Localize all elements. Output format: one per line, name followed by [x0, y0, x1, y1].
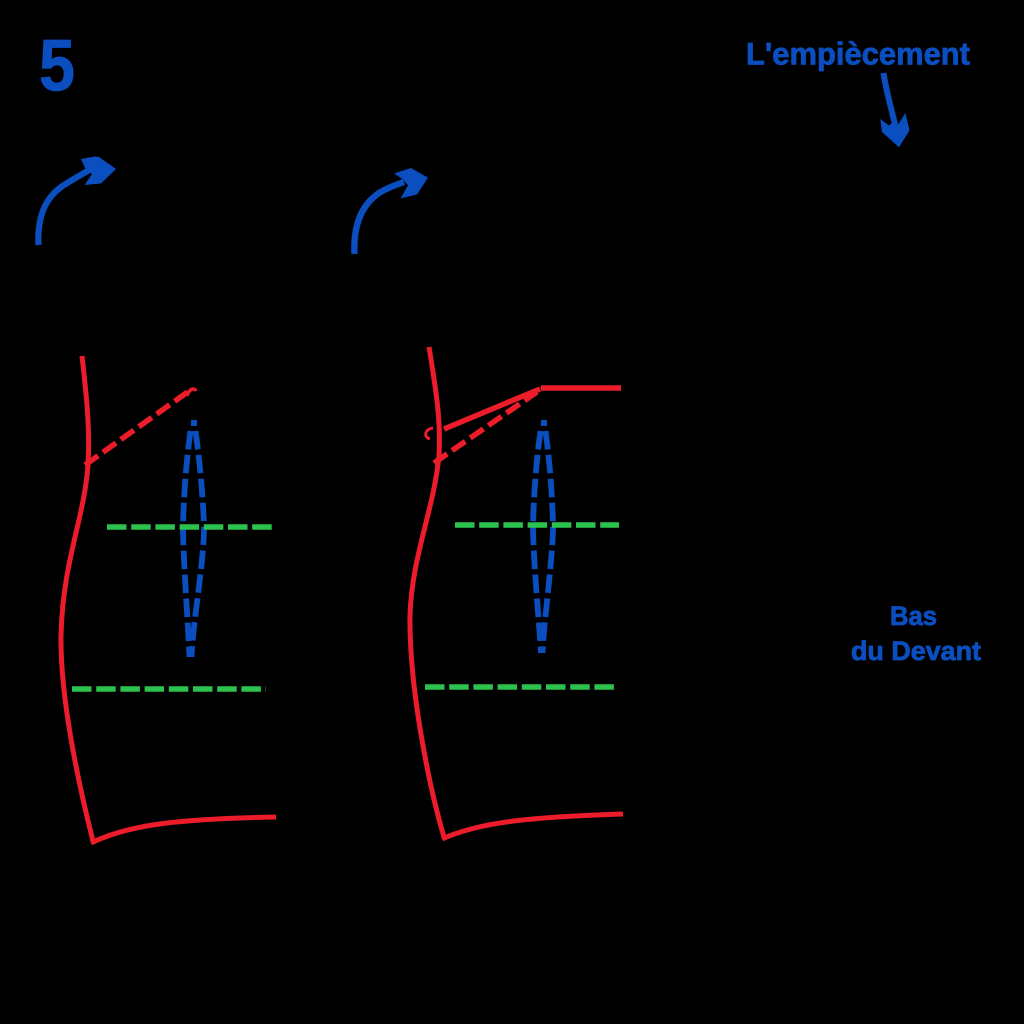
svg-text:5: 5	[39, 26, 75, 107]
svg-text:Bas: Bas	[890, 601, 937, 631]
svg-text:L'empiècement: L'empiècement	[746, 36, 970, 72]
svg-text:du Devant: du Devant	[851, 636, 981, 666]
